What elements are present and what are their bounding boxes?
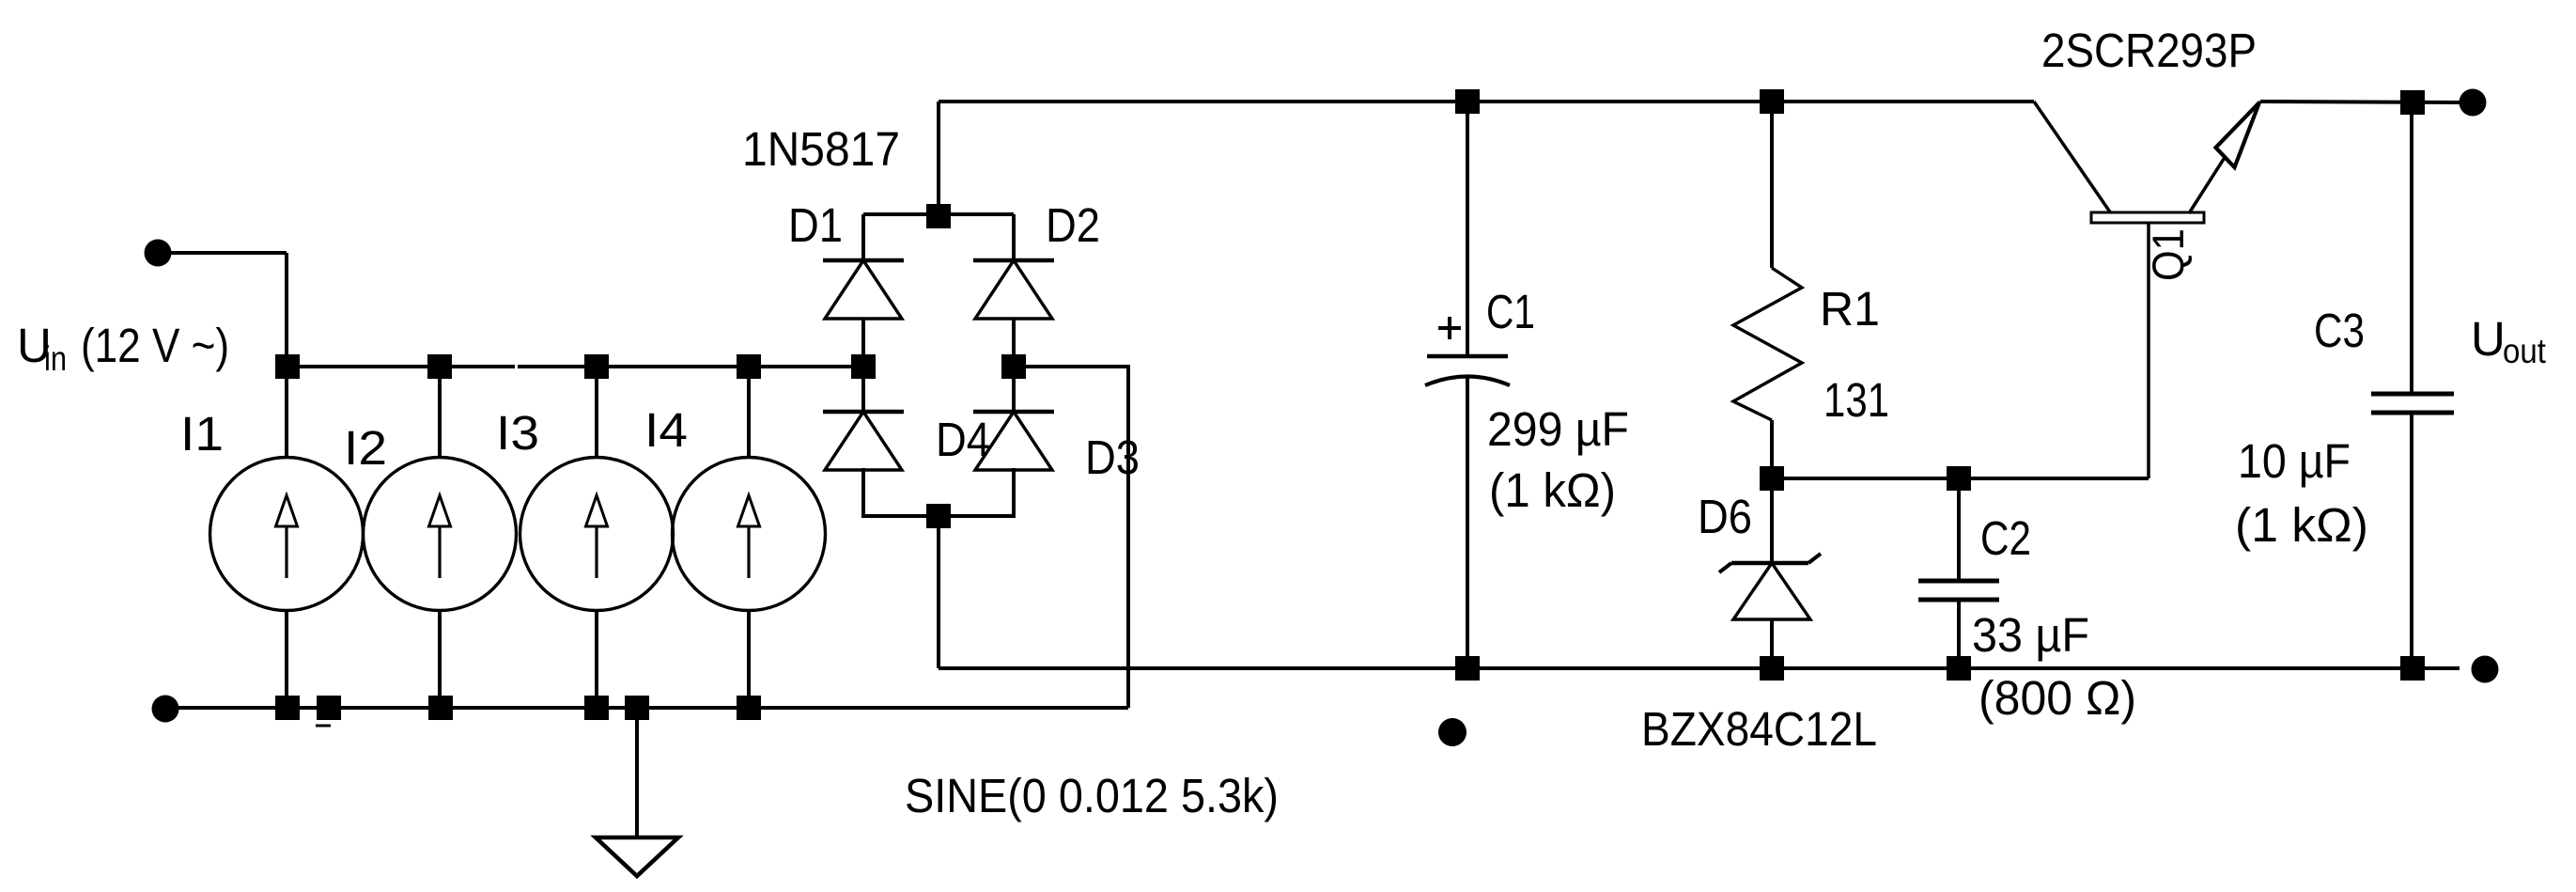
- wire ground rail: [939, 666, 2460, 670]
- junction bridge bottom node: [926, 504, 951, 528]
- svg-text:D3: D3: [1085, 430, 1140, 484]
- svg-text:1N5817: 1N5817: [742, 122, 900, 176]
- svg-text:(12 V ~): (12 V ~): [81, 319, 229, 372]
- capacitor C1: [1425, 102, 1510, 668]
- svg-text:(1 kΩ): (1 kΩ): [1489, 463, 1616, 517]
- junction I3 bottom: [584, 696, 609, 720]
- diode D1: [823, 260, 904, 319]
- svg-text:in: in: [44, 339, 67, 378]
- plus sign C1 polarity: [1438, 326, 1461, 330]
- svg-text:131: 131: [1823, 373, 1889, 427]
- junction I2 bottom: [428, 696, 453, 720]
- svg-text:299 µF: 299 µF: [1487, 402, 1629, 456]
- svg-text:(800 Ω): (800 Ω): [1979, 671, 2136, 725]
- wire D1 bottom lead: [861, 319, 865, 367]
- svg-text:U: U: [2471, 312, 2506, 366]
- junction R1/D6 node: [1760, 466, 1784, 491]
- wire D4 bottom lead: [861, 468, 865, 516]
- wire D3 to bottom node: [939, 514, 1016, 518]
- junction I1 top: [275, 354, 300, 379]
- svg-text:I2: I2: [344, 421, 387, 475]
- wire bottom input rail: [165, 706, 1128, 710]
- capacitor C2: [1918, 478, 1999, 668]
- svg-text:C1: C1: [1486, 285, 1535, 338]
- junction stub bottom: [317, 696, 341, 720]
- node spare terminal below C1: [1438, 718, 1466, 746]
- wire R1-D6 node to Q1 base: [1772, 477, 2149, 480]
- svg-text:(1 kΩ): (1 kΩ): [2235, 498, 2368, 552]
- svg-text:Q1: Q1: [2143, 228, 2193, 281]
- svg-text:SINE(0 0.012 5.3k): SINE(0 0.012 5.3k): [905, 769, 1279, 822]
- svg-text:I4: I4: [644, 403, 688, 457]
- wire D1 top lead: [861, 214, 865, 260]
- wire input stub horizontal: [158, 251, 287, 255]
- junction bridge mid-right node: [1001, 354, 1026, 379]
- junction C3 bottom: [2400, 656, 2425, 681]
- wire D3 top lead: [1012, 367, 1016, 412]
- junction I3 top: [584, 354, 609, 379]
- wire input rail left segment: [287, 365, 515, 368]
- junction C2 top: [1947, 466, 1971, 491]
- wire bridge top stub: [937, 102, 940, 216]
- diode D3: [973, 412, 1054, 470]
- wire bridge return vertical: [1126, 365, 1130, 708]
- junction bridge mid-left node: [851, 354, 876, 379]
- wire bridge mid-right to return: [1014, 365, 1128, 368]
- capacitor C3: [2371, 102, 2454, 668]
- diode D2: [973, 260, 1054, 319]
- wire top rail: [939, 100, 2034, 103]
- wire bridge top horizontal: [863, 212, 1014, 216]
- current source I1: [210, 367, 364, 708]
- current source I4: [673, 367, 826, 708]
- svg-text:BZX84C12L: BZX84C12L: [1641, 702, 1877, 756]
- svg-text:D6: D6: [1698, 490, 1752, 543]
- current source I2: [364, 367, 517, 708]
- current source I3: [520, 367, 674, 708]
- wire input rail right segment: [518, 365, 863, 368]
- junction I4 bottom: [737, 696, 761, 720]
- junction C1 bottom: [1455, 656, 1480, 681]
- wire D2 top lead: [1012, 214, 1016, 260]
- junction C2 bottom: [1947, 656, 1971, 681]
- svg-text:D1: D1: [788, 198, 843, 252]
- transistor Q1: [2034, 102, 2260, 478]
- node Uout terminal: [2460, 89, 2487, 117]
- svg-text:I1: I1: [180, 407, 224, 461]
- node output return terminal: [2472, 656, 2499, 683]
- wire input stub vertical: [285, 253, 288, 367]
- junction ground tap: [625, 696, 649, 720]
- junction bridge top node: [926, 204, 951, 228]
- wire top rail right of Q1: [2260, 102, 2461, 102]
- svg-text:C2: C2: [1980, 511, 2031, 565]
- junction I1 bottom: [275, 696, 300, 720]
- wire D4 to bottom node: [861, 514, 939, 518]
- junction I4 top: [737, 354, 761, 379]
- svg-text:2SCR293P: 2SCR293P: [2041, 23, 2257, 77]
- svg-text:I3: I3: [496, 406, 539, 460]
- zener diode D6: [1719, 478, 1821, 668]
- wire ground stem: [635, 708, 639, 837]
- wire D3 bottom lead: [1012, 468, 1016, 516]
- junction output node top: [2400, 90, 2425, 115]
- svg-text:33 µF: 33 µF: [1972, 608, 2089, 662]
- node input return terminal: [152, 696, 179, 723]
- junction D6 bottom: [1760, 656, 1784, 681]
- node Uin input terminal: [145, 240, 172, 267]
- diode D4: [823, 412, 904, 470]
- wire D4 top lead: [861, 367, 865, 412]
- junction I2 top: [427, 354, 452, 379]
- svg-text:D2: D2: [1046, 198, 1100, 252]
- junction C1 top: [1455, 89, 1480, 114]
- tick below junction: [316, 725, 331, 728]
- svg-text:R1: R1: [1820, 282, 1880, 336]
- wire D2 bottom lead: [1012, 319, 1016, 367]
- resistor R1: [1733, 102, 1802, 478]
- svg-text:C3: C3: [2314, 304, 2365, 357]
- ground: [596, 837, 678, 876]
- wire bridge bottom to ground rail: [937, 516, 940, 668]
- junction R1 top: [1760, 89, 1784, 114]
- svg-text:10 µF: 10 µF: [2238, 434, 2351, 488]
- svg-text:out: out: [2503, 332, 2547, 370]
